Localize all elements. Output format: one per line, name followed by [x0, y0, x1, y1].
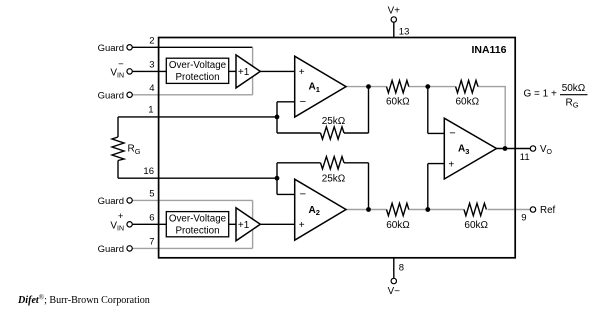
svg-text:50kΩ: 50kΩ: [562, 83, 586, 94]
svg-text:+: +: [299, 67, 305, 78]
svg-text:+: +: [448, 159, 454, 170]
label 25k R1: [322, 116, 346, 127]
resistor 60k top-left zigzag: [387, 80, 409, 92]
svg-text:+: +: [118, 211, 124, 222]
wire buffer1 out to A1 +: [260, 70, 295, 72]
wire pin16 row: [118, 177, 277, 179]
svg-text:Ref: Ref: [540, 205, 556, 216]
wire node pin1 vertical to A1 - and 25k1: [277, 102, 321, 133]
svg-text:11: 11: [520, 152, 530, 163]
label 60k top-right: [455, 96, 479, 107]
svg-text:Over-Voltage: Over-Voltage: [169, 60, 227, 71]
pin number 6: [149, 212, 154, 223]
svg-text:25kΩ: 25kΩ: [322, 173, 346, 184]
svg-text:+: +: [299, 220, 305, 231]
svg-text:−: −: [300, 96, 306, 108]
terminal V- pin8: [388, 278, 401, 297]
label 60k top-left: [386, 96, 410, 107]
wire A3 output to pin 11: [497, 148, 531, 150]
wire shield1 right edge (gray): [252, 47, 254, 95]
node dot A2 out: [366, 207, 371, 212]
pin number 2: [149, 35, 154, 46]
svg-text:Protection: Protection: [175, 72, 219, 83]
pin number 7: [149, 236, 154, 247]
svg-text:5: 5: [149, 188, 154, 199]
svg-text:Guard: Guard: [98, 196, 124, 207]
wire 25k2 right lead and vertical to A2 out: [344, 163, 369, 210]
over-voltage protection box 2: [166, 212, 228, 237]
svg-text:G = 1 +: G = 1 +: [524, 89, 558, 100]
wire A1 output row (gray): [346, 86, 506, 88]
svg-text:INA116: INA116: [471, 44, 506, 56]
resistor 60k bottom-left zigzag: [387, 203, 409, 215]
svg-text:1: 1: [148, 105, 153, 116]
pin number 3: [149, 59, 154, 70]
svg-text:VO: VO: [540, 144, 553, 156]
svg-text:13: 13: [399, 27, 410, 38]
wire Ref row to pin 9 (gray): [488, 209, 531, 211]
terminal V+ pin13: [388, 6, 401, 23]
svg-text:−: −: [300, 189, 306, 201]
resistor 25k R2 zigzag: [321, 157, 345, 169]
svg-text:Difet®; Burr-Brown Corporation: Difet®; Burr-Brown Corporation: [17, 294, 150, 307]
svg-text:+1: +1: [238, 67, 250, 78]
svg-text:2: 2: [149, 35, 154, 46]
svg-text:60kΩ: 60kΩ: [464, 220, 488, 231]
svg-text:−: −: [449, 128, 455, 140]
wire pin3 VIN- input: [132, 70, 166, 72]
gain equation G = 1 + 50k/RG: [524, 83, 588, 110]
pin number 4: [149, 83, 154, 94]
node dot pin1 junction: [275, 115, 280, 120]
pin number 13: [399, 27, 410, 38]
svg-text:60kΩ: 60kΩ: [455, 96, 479, 107]
op-amp A1: [295, 56, 346, 117]
svg-text:7: 7: [149, 236, 154, 247]
svg-text:16: 16: [143, 166, 154, 177]
pin number 8: [399, 263, 404, 274]
svg-text:6: 6: [149, 212, 154, 223]
svg-text:4: 4: [149, 83, 154, 94]
wire output feedback vertical (gray): [504, 87, 506, 149]
svg-text:Guard: Guard: [98, 90, 124, 101]
svg-text:Protection: Protection: [175, 226, 219, 237]
terminal VO pin11: [530, 144, 552, 156]
label RG: [128, 144, 141, 156]
main box INA116 outline: [159, 38, 516, 258]
resistor RG external: [112, 117, 124, 178]
label 25k R2: [322, 173, 346, 184]
node dot A3 out: [503, 146, 508, 151]
resistor 60k bottom-right zigzag: [464, 203, 486, 215]
terminal VIN+ pin6: [110, 211, 132, 232]
node dot A1 60k junction: [425, 84, 430, 89]
node dot A2 60k junction: [425, 207, 430, 212]
op-amp A2: [295, 179, 346, 240]
svg-text:V−: V−: [388, 286, 401, 297]
op-amp A3: [444, 118, 496, 179]
wire node pin16 vertical to A2 - and 25k2: [277, 163, 321, 195]
wire 25k1 right lead and vertical to A1 out: [344, 87, 369, 133]
wire guard pin5 trace / shield2 top (gray): [132, 199, 252, 201]
resistor 60k top-right zigzag: [456, 80, 478, 92]
wire guard pin7 trace / shield2 bottom (gray): [132, 247, 252, 249]
label 60k bottom-right: [464, 220, 488, 231]
wire V+ stub pin 13: [393, 22, 395, 37]
svg-text:+1: +1: [238, 220, 250, 231]
terminal guard pin7: [98, 244, 133, 255]
pin number 1: [148, 105, 153, 116]
svg-text:3: 3: [149, 59, 154, 70]
svg-text:−: −: [118, 59, 124, 70]
svg-text:Guard: Guard: [98, 244, 124, 255]
pin number 9: [521, 213, 526, 224]
svg-text:Over-Voltage: Over-Voltage: [169, 213, 227, 224]
node dot A1 out: [366, 84, 371, 89]
wire node to A3 - input: [428, 87, 445, 134]
label INA116: [471, 44, 506, 56]
wire pin1 row: [118, 116, 277, 118]
terminal guard pin4: [98, 90, 133, 101]
terminal Ref pin9: [530, 205, 555, 216]
footnote Difet Burr-Brown: [17, 294, 150, 307]
svg-text:RG: RG: [565, 98, 578, 110]
wire A2 output row (gray): [346, 209, 464, 211]
buffer +1 amp U2: [236, 208, 260, 241]
terminal guard pin2: [98, 43, 133, 54]
node dot pin16 junction: [275, 176, 280, 181]
wire V- stub pin 8: [393, 258, 395, 278]
svg-text:60kΩ: 60kΩ: [386, 220, 410, 231]
svg-text:V+: V+: [388, 6, 401, 17]
svg-text:Guard: Guard: [98, 43, 124, 54]
resistor 25k R1 zigzag: [321, 127, 345, 139]
wire shield2 right edge (gray): [252, 200, 254, 248]
terminal VIN- pin3: [110, 59, 132, 80]
label 60k bottom-left: [386, 220, 410, 231]
svg-text:RG: RG: [128, 144, 141, 156]
pin number 16: [143, 166, 154, 177]
wire guard pin2 trace / shield1 top: [132, 46, 252, 48]
terminal guard pin5: [98, 196, 133, 207]
wire guard pin4 trace / shield1 bottom (gray): [132, 94, 252, 96]
svg-text:8: 8: [399, 263, 404, 274]
pin number 5: [149, 188, 154, 199]
buffer +1 amp U1: [236, 55, 260, 88]
svg-text:9: 9: [521, 213, 526, 224]
pin number 11: [520, 152, 530, 163]
over-voltage protection box 1: [166, 58, 228, 83]
wire OVP1 to buffer1: [229, 70, 237, 72]
svg-text:25kΩ: 25kΩ: [322, 116, 346, 127]
wire OVP2 to buffer2: [229, 223, 237, 225]
wire pin6 VIN+ input: [132, 223, 166, 225]
svg-text:60kΩ: 60kΩ: [386, 96, 410, 107]
wire node to A3 + input: [428, 164, 445, 210]
wire buffer2 out to A2 +: [260, 223, 295, 225]
